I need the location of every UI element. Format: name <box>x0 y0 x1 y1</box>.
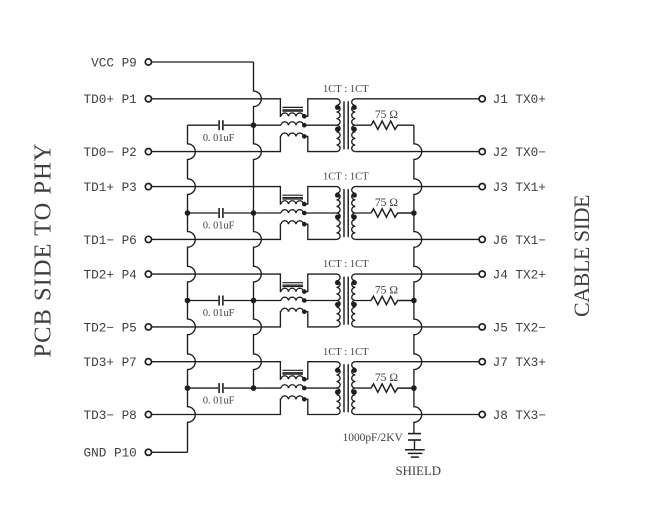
svg-text:1000pF/2KV: 1000pF/2KV <box>343 432 404 444</box>
svg-text:TD3+ P7: TD3+ P7 <box>84 355 137 370</box>
svg-text:75 Ω: 75 Ω <box>375 196 398 209</box>
svg-text:1CT : 1CT: 1CT : 1CT <box>323 172 369 183</box>
svg-text:TD1+ P3: TD1+ P3 <box>84 180 137 195</box>
svg-text:0. 01uF: 0. 01uF <box>203 308 235 319</box>
svg-text:75 Ω: 75 Ω <box>375 283 398 296</box>
svg-text:J4 TX2+: J4 TX2+ <box>493 268 546 283</box>
svg-text:1CT : 1CT: 1CT : 1CT <box>323 347 369 358</box>
svg-text:SHIELD: SHIELD <box>396 464 442 478</box>
svg-text:0. 01uF: 0. 01uF <box>203 396 235 407</box>
svg-text:TD0− P2: TD0− P2 <box>84 145 137 160</box>
svg-text:TD2− P5: TD2− P5 <box>84 320 137 335</box>
svg-text:PCB SIDE TO PHY: PCB SIDE TO PHY <box>30 143 57 358</box>
svg-text:TD0+ P1: TD0+ P1 <box>84 92 137 107</box>
svg-text:CABLE SIDE: CABLE SIDE <box>569 195 594 317</box>
svg-text:1CT : 1CT: 1CT : 1CT <box>323 84 369 95</box>
svg-text:1CT : 1CT: 1CT : 1CT <box>323 259 369 270</box>
svg-text:VCC P9: VCC P9 <box>91 55 137 70</box>
svg-text:0. 01uF: 0. 01uF <box>203 221 235 232</box>
svg-text:J6 TX1−: J6 TX1− <box>493 233 546 248</box>
svg-text:TD1− P6: TD1− P6 <box>84 233 137 248</box>
svg-text:GND P10: GND P10 <box>84 446 137 461</box>
svg-text:J5 TX2−: J5 TX2− <box>493 320 546 335</box>
svg-text:0. 01uF: 0. 01uF <box>203 133 235 144</box>
svg-text:J8 TX3−: J8 TX3− <box>493 408 546 423</box>
svg-text:75 Ω: 75 Ω <box>375 108 398 121</box>
svg-text:J3 TX1+: J3 TX1+ <box>493 180 546 195</box>
svg-text:J7 TX3+: J7 TX3+ <box>493 355 546 370</box>
svg-text:TD2+ P4: TD2+ P4 <box>84 268 137 283</box>
svg-text:J2 TX0−: J2 TX0− <box>493 145 546 160</box>
svg-text:75 Ω: 75 Ω <box>375 371 398 384</box>
svg-text:J1 TX0+: J1 TX0+ <box>493 92 546 107</box>
svg-text:TD3− P8: TD3− P8 <box>84 408 137 423</box>
